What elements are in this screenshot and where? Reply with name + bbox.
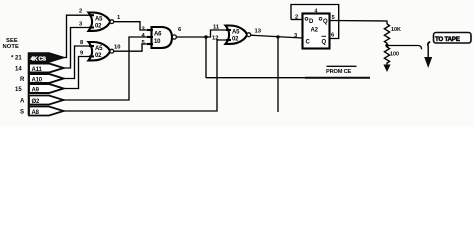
svg-text:A11: A11 [32, 67, 43, 73]
wire phi-2 to U3 pin 4 [64, 37, 152, 100]
junction divider node [385, 44, 388, 47]
NOR gate U4 A5/02 [226, 26, 251, 44]
pin label 4 [315, 9, 318, 15]
value label 10K [391, 27, 401, 33]
signal flag A11 [29, 64, 64, 73]
pin label 1 [117, 15, 121, 21]
pin label 6 [178, 27, 182, 33]
pin label 4 of U3 [142, 33, 146, 39]
wire A9 to U2 pin 9 [64, 57, 90, 89]
pin label 2 [79, 9, 82, 15]
off-page arrow to tape [424, 57, 432, 68]
svg-text:6: 6 [331, 33, 335, 39]
pin label 2 of U5 [295, 15, 298, 21]
wire U2 output to U3 pin 5 [114, 44, 151, 51]
svg-text:S: S [20, 110, 24, 116]
pin label 15 [15, 87, 22, 93]
svg-text:02: 02 [232, 37, 239, 43]
svg-text:10K: 10K [391, 27, 401, 33]
pin label 3 of U5 [294, 33, 298, 39]
svg-text:A10: A10 [32, 77, 43, 83]
svg-text:A6: A6 [154, 32, 162, 38]
svg-text:TO TAPE: TO TAPE [435, 36, 460, 43]
signal flag A10 [29, 74, 64, 83]
svg-text:NOTE: NOTE [3, 44, 20, 50]
svg-text:02: 02 [95, 24, 102, 30]
wire U1 output to U3 pin 3 [114, 22, 151, 30]
connector pin to tape [428, 42, 430, 59]
svg-text:10: 10 [114, 45, 120, 51]
svg-text:3: 3 [79, 22, 83, 28]
wire node down to PROM CE line [205, 37, 207, 78]
pin label 10 [114, 45, 120, 51]
NOR gate U1 A5/02 [89, 13, 114, 31]
wire net PROM CE [206, 77, 370, 79]
wire A10 to U2 pin 8 [64, 46, 90, 79]
svg-text:* 21: * 21 [11, 56, 22, 62]
pin label 11 [213, 25, 220, 31]
wire Q output to resistor R1 [330, 21, 388, 25]
signal flag 4K CS [29, 53, 64, 62]
label box TO TAPE [434, 33, 472, 44]
pin label *21 [11, 56, 22, 62]
flip-flop U5 A2 [303, 14, 330, 49]
pin label S [20, 110, 24, 116]
svg-text:R: R [20, 77, 25, 83]
svg-text:4K CS: 4K CS [31, 56, 47, 62]
svg-text:5: 5 [142, 40, 146, 46]
svg-text:PROM CE: PROM CE [326, 69, 352, 75]
svg-text:100: 100 [390, 52, 399, 58]
svg-text:D: D [309, 19, 314, 25]
pin label 6 of U5 [331, 33, 335, 39]
pin label 5 of U5 [332, 15, 336, 21]
wire A11 to U1 pin 3 [64, 28, 90, 69]
svg-text:6: 6 [178, 27, 182, 33]
wire U4 output to U5 pin 3 [251, 35, 302, 38]
svg-text:11: 11 [213, 25, 220, 31]
pin label 3 of U3 [142, 27, 146, 33]
pin label A [20, 99, 25, 105]
svg-text:A5: A5 [95, 16, 103, 22]
svg-text:12: 12 [212, 36, 218, 42]
svg-text:Q: Q [322, 40, 327, 46]
pin label 5 of U3 [142, 40, 146, 46]
svg-text:8: 8 [80, 40, 84, 46]
NOR gate U2 A5/02 [89, 42, 114, 60]
wire feedback loop Q-bar to D [291, 5, 339, 39]
net label PROM CE overbar [326, 66, 357, 75]
svg-text:14: 14 [15, 67, 22, 73]
svg-text:A2: A2 [311, 28, 319, 34]
junction node PROM CE [204, 35, 207, 38]
wire stub down from clock node [277, 37, 279, 112]
wire A8 to U4 pin 12 [64, 40, 227, 111]
wire U3 output to node PROM-CE [177, 36, 207, 38]
input bus line [28, 53, 30, 116]
svg-text:02: 02 [95, 53, 102, 59]
signal flag A8 [29, 107, 64, 116]
wire 4K CS to U1 pin 2 [64, 15, 90, 57]
note label SEE NOTE [3, 38, 20, 50]
svg-text:1: 1 [117, 15, 121, 21]
resistor R2 100 [384, 46, 389, 65]
wire divider node to connector [387, 46, 422, 50]
svg-text:9: 9 [80, 51, 84, 57]
signal flag phi-2 [29, 96, 64, 105]
wire node to U4 pin 11 [206, 30, 226, 37]
svg-text:2: 2 [79, 9, 82, 15]
svg-text:13: 13 [255, 29, 262, 35]
svg-text:C: C [306, 40, 311, 46]
value label 100 [390, 52, 399, 58]
signal flag A9 [29, 84, 64, 93]
svg-text:15: 15 [15, 87, 22, 93]
pin label 13 [255, 29, 262, 35]
svg-text:10: 10 [154, 39, 161, 45]
ground arrow below R2 [383, 63, 390, 72]
pin label 14 [15, 67, 22, 73]
svg-text:A5: A5 [95, 46, 103, 52]
resistor R1 10K [384, 24, 389, 44]
wire D input stub [291, 19, 303, 21]
NAND gate U3 A6/10 [147, 27, 176, 48]
junction node clock [276, 35, 279, 38]
svg-text:A5: A5 [232, 29, 240, 35]
svg-text:Q: Q [323, 19, 328, 25]
svg-text:4: 4 [142, 33, 146, 39]
pin label R [20, 77, 25, 83]
svg-text:4: 4 [315, 9, 318, 15]
svg-text:Ø2: Ø2 [32, 99, 40, 105]
svg-text:A8: A8 [32, 110, 40, 116]
pin label 12 [212, 36, 218, 42]
pin label 8 [80, 40, 84, 46]
svg-text:A9: A9 [32, 87, 40, 93]
svg-text:A: A [20, 99, 25, 105]
pin label 9 [80, 51, 84, 57]
pin label 3 [79, 22, 83, 28]
